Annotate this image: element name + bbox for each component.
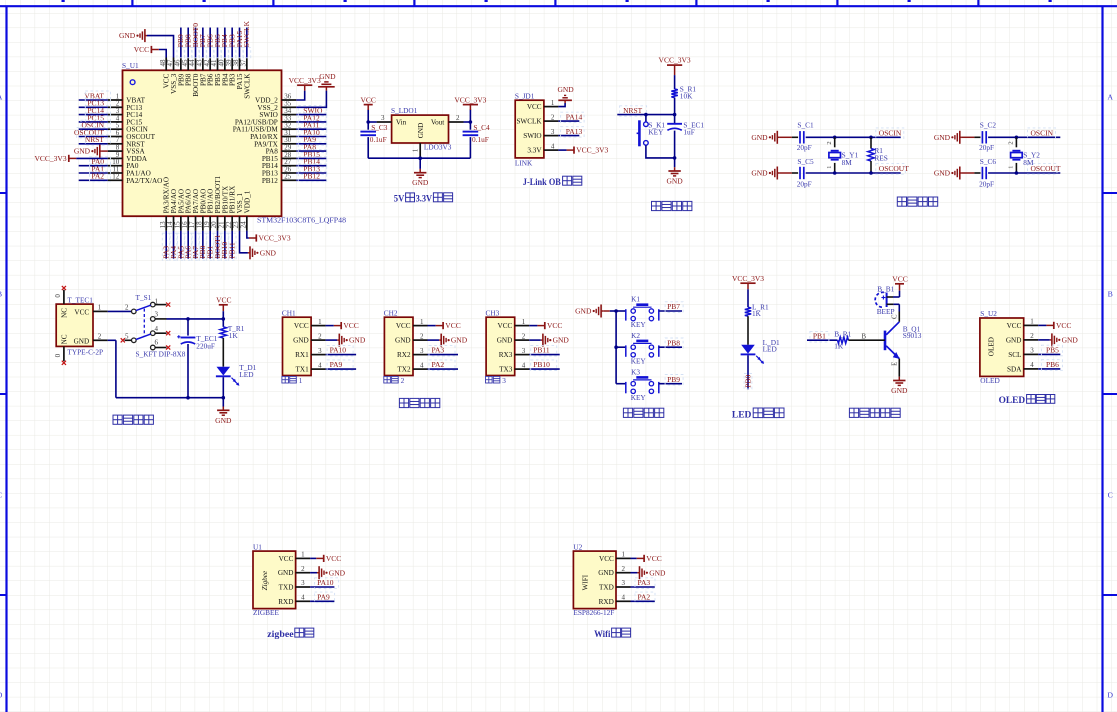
wire [1038,353,1060,355]
TEC1 shield pin top [63,290,65,304]
wire [834,163,836,173]
power flag VCC [334,321,359,330]
wire [674,158,676,167]
junction [644,113,648,117]
wire VSS_2 to GND [296,91,326,108]
svg-text:E: E [892,362,899,366]
svg-text:0: 0 [54,294,62,298]
net label OSCOUT [1028,164,1061,175]
wire NRST [617,114,674,116]
svg-text:VCC: VCC [360,95,375,104]
net label VBAT [84,91,110,101]
caption OLED display (CJK) [999,395,1055,406]
net label BOOT0 [191,23,200,58]
caption LED circuit (CJK) [732,408,784,419]
svg-text:GND: GND [74,337,90,345]
svg-text:SWCLK: SWCLK [242,20,251,47]
caption J-Link OB interface [523,176,582,187]
power flag VCC_3V3 reset [659,56,691,76]
net label PB8 [184,34,193,58]
wire [646,145,675,158]
ground at C1 [751,131,779,144]
svg-text:S_C2: S_C2 [980,121,997,130]
wire [326,368,357,370]
junction [673,113,677,117]
power flag VCC_3V3 at VDD_1 pin 24 [249,234,291,243]
svg-text:1: 1 [551,99,555,107]
CH3 pin stubs and numbers [515,318,530,370]
wire [367,137,369,158]
wire VSS_1 to GND [240,231,248,253]
svg-text:3: 3 [1030,347,1034,355]
svg-text:GND: GND [598,569,614,577]
svg-text:K2: K2 [631,331,640,340]
power flag VCC_3V3 at VDDA pin 9 [35,154,77,163]
svg-text:OSCIN: OSCIN [1031,128,1054,137]
net label PA1 [90,164,111,174]
wire OSCIN row 2 [988,136,1060,138]
MCU bottom pin stubs and numbers [159,216,248,231]
wire [631,586,655,588]
power flag VCC [436,321,461,330]
svg-text:C: C [0,491,2,500]
svg-text:TX1: TX1 [296,366,310,374]
svg-text:2: 2 [551,113,555,121]
capacitor T_EC1 220uF [177,335,195,344]
resistor B_R1 1K [838,337,849,343]
svg-text:3: 3 [522,347,526,355]
ground [541,334,570,347]
svg-text:2: 2 [401,376,405,385]
caption power circuit (CJK) [113,415,122,424]
svg-text:VCC: VCC [1056,321,1071,330]
svg-text:VCC: VCC [294,322,309,330]
svg-text:LINK: LINK [515,158,533,167]
svg-text:VCC_3V3: VCC_3V3 [259,234,291,243]
junction [1015,136,1019,140]
power flag VCC_3V3 at LDO output [454,95,486,110]
svg-text:GND: GND [319,72,336,81]
svg-text:CH2: CH2 [384,308,398,317]
net label PB14 [298,157,327,167]
JD1 pin stubs and numbers [544,99,559,151]
connector CH1 body [283,317,312,375]
svg-text:3: 3 [381,114,385,122]
svg-text:VCC: VCC [527,103,542,111]
svg-text:KEY: KEY [631,393,647,402]
svg-text:2: 2 [522,332,526,340]
caption key circuit (CJK) [623,408,632,417]
svg-text:PA10: PA10 [330,346,347,355]
svg-text:PA2: PA2 [638,592,651,601]
capacitor S_C6 20pF [982,167,986,179]
MCU bottom wires [166,231,232,259]
caption serial port 1 (CJK) [282,376,303,385]
svg-text:LED: LED [239,370,253,379]
junction [186,396,190,400]
sheet border left line [5,6,7,712]
svg-text:3: 3 [155,311,159,319]
wire bottom bus power [116,397,223,399]
wire [1038,368,1060,370]
svg-text:RES: RES [874,153,887,162]
wire switch pin3 to VCC rail [167,318,224,320]
net label OSCOUT [876,164,909,175]
svg-text:ESP8266-12F: ESP8266-12F [573,608,614,617]
wire OSCOUT row [806,172,901,174]
net label PA4 [169,233,178,260]
net label PA9 [298,135,327,145]
net label PA2 [90,171,111,181]
LED T_D1 [216,367,240,386]
junction [222,396,226,400]
svg-text:C: C [1108,491,1113,500]
wire [899,291,901,297]
svg-text:1: 1 [1008,166,1015,169]
svg-text:PA9: PA9 [330,360,343,369]
svg-text:RX2: RX2 [397,351,411,359]
svg-text:RX1: RX1 [295,351,309,359]
svg-text:B: B [862,334,867,341]
buzzer B_B1 [875,292,886,307]
svg-text:PB12: PB12 [303,172,320,181]
net label PA8 [298,142,327,152]
svg-text:3: 3 [502,376,506,385]
wire [102,150,108,152]
svg-text:GND: GND [329,568,346,577]
svg-text:PB10: PB10 [533,360,550,369]
wire VSS_3 pin 47 [147,36,174,58]
svg-text:1: 1 [299,376,303,385]
svg-text:3.3V: 3.3V [527,147,542,155]
net label PB15 [298,149,327,159]
net label PB10 [531,360,557,371]
switch T_S1 DPDT [132,302,156,350]
svg-text:TX2: TX2 [397,366,411,374]
svg-text:S_U2: S_U2 [980,309,997,318]
svg-text:Zigbee: Zigbee [261,570,269,590]
svg-text:KEY: KEY [648,128,664,137]
wire [367,122,369,130]
svg-text:4: 4 [1030,361,1034,369]
MCU right pin stubs and numbers [282,92,297,180]
wire VDD_2 to VCC_3V3 [296,91,304,100]
power flag VCC at OLED [1046,321,1071,330]
svg-text:LED: LED [763,344,777,353]
svg-text:SWCLK: SWCLK [243,73,251,99]
CH3 pin names [497,322,513,374]
svg-text:GND: GND [215,416,232,425]
svg-text:TXD: TXD [279,584,294,592]
svg-text:3: 3 [318,347,322,355]
svg-text:2: 2 [622,565,626,573]
U2 pin stubs and numbers [1024,318,1038,370]
svg-text:NC: NC [60,308,68,318]
push button S_K1 [637,120,649,146]
svg-text:VCC: VCC [892,274,907,283]
module U1 body [253,551,296,609]
CH1 pin stubs and numbers [311,318,326,370]
net label OSCIN [876,128,904,139]
svg-text:3.3V: 3.3V [416,194,433,204]
svg-text:GND: GND [74,147,91,156]
svg-text:PA13: PA13 [566,127,583,136]
wire [187,319,189,336]
net label PB6 [1041,360,1062,371]
ground buzzer [891,377,908,395]
wire [974,172,980,174]
net label NRST [620,106,647,116]
svg-text:4: 4 [301,594,305,602]
net label PA10 [298,128,327,138]
module U2 body [573,551,616,609]
svg-text:GND: GND [751,169,768,178]
capacitor S_C3 [360,132,376,136]
net label PB1 [810,331,829,342]
svg-text:4: 4 [551,142,555,150]
svg-text:VCC: VCC [445,321,460,330]
svg-text:PB9: PB9 [667,375,680,384]
TEC1 shield pin bottom [63,346,65,361]
svg-text:VCC: VCC [74,308,89,316]
svg-text:GND: GND [1006,336,1022,344]
svg-text:S_KFT DIP-8X8: S_KFT DIP-8X8 [136,350,186,359]
svg-text:VDD_1: VDD_1 [243,190,251,213]
net label PB0 [198,233,207,260]
svg-text:RXD: RXD [599,598,614,606]
wire [674,75,676,89]
ground at VSS_1 pin 23 [248,246,277,259]
net label PA12 [298,113,327,123]
svg-text:GND: GND [666,177,683,186]
wire [529,339,541,341]
svg-text:PA2/TX/AO: PA2/TX/AO [126,177,162,185]
wire [631,600,655,602]
svg-text:VCC_3V3: VCC_3V3 [732,274,764,283]
TEC1 pin names [60,308,89,346]
junction [869,136,873,140]
wire VCC_3V3 down [469,109,471,122]
net label PA2 [635,592,655,603]
svg-text:S_C3: S_C3 [371,123,388,132]
junction [673,156,677,160]
svg-text:2: 2 [318,332,322,340]
svg-text:B: B [1108,290,1113,299]
wire [310,572,317,574]
TEC1 pin 2 stub [93,339,108,341]
svg-text:WIFI: WIFI [582,574,590,590]
capacitor S_C2 20pF [982,131,986,143]
net label PB12 [298,171,327,181]
svg-text:TX3: TX3 [499,366,513,374]
svg-text:Vout: Vout [431,118,444,126]
wire [108,339,116,341]
wire [645,115,647,122]
svg-text:4: 4 [420,361,424,369]
svg-text:3: 3 [622,579,626,587]
wire [792,172,798,174]
svg-text:PB7: PB7 [667,302,680,311]
capacitor S_C4 [463,132,479,136]
net label BOOT1 [213,233,222,260]
svg-text:2: 2 [1030,332,1034,340]
svg-text:8M: 8M [1023,158,1034,167]
svg-text:VCC_3V3: VCC_3V3 [289,76,321,85]
power flag VCC power circuit [216,295,231,311]
svg-text:GND: GND [891,386,908,395]
wire [115,340,117,397]
ground at VSS_3 pin 47 [119,29,147,42]
LDO pin 1 stub [419,143,421,158]
MCU left wires [79,100,108,180]
ground at C6 [934,167,962,180]
svg-text:GND: GND [553,336,570,345]
ground at VSSA pin 8 [74,145,102,158]
wire [870,137,872,148]
svg-text:1: 1 [522,318,526,326]
net label PA3 [635,578,655,589]
junction [614,345,618,349]
CH2 pin stubs and numbers [413,318,428,370]
no-connect X [121,338,125,342]
wire [616,310,626,312]
net label SWCLK [242,20,251,57]
wire [326,325,334,327]
ground at JD1 pin 1 [557,85,574,103]
svg-text:24: 24 [239,221,247,229]
svg-text:C: C [892,314,899,319]
wire [108,310,132,312]
wire [428,339,440,341]
svg-text:PB11: PB11 [228,242,237,259]
switch pin numbers [125,297,159,346]
net label PB5 [213,34,222,58]
svg-text:1K: 1K [752,309,762,318]
U2 pin names [1006,322,1022,374]
wire [529,368,560,370]
net label PB6 [206,34,215,58]
net label PA11 [298,120,327,130]
svg-text:CH3: CH3 [486,308,500,317]
svg-text:1: 1 [420,318,424,326]
power flag VCC [316,554,341,563]
connector CH3 body [486,317,515,375]
wire VCC down [367,109,369,122]
push button K2 [626,341,659,357]
wire [848,339,885,341]
wire [616,383,626,385]
ground at C2 [934,131,962,144]
wire [529,354,560,356]
svg-text:2: 2 [301,565,305,573]
junction [833,136,837,140]
svg-text:2: 2 [456,114,460,122]
U2 pin names [598,555,614,606]
svg-text:SWCLK: SWCLK [516,118,542,126]
net label PA5 [176,233,185,260]
power flag VCC at LDO input [360,95,375,110]
svg-text:PA14: PA14 [566,112,583,121]
sheet column ticks [62,0,1052,6]
svg-text:PB6: PB6 [1046,360,1059,369]
wire [222,398,224,407]
svg-text:VCC: VCC [134,45,149,54]
wire [222,311,224,319]
svg-text:RX3: RX3 [499,351,513,359]
svg-text:K3: K3 [631,367,640,376]
wire OSCIN row [806,136,901,138]
CH1 pin names [293,322,309,374]
wire [1038,339,1050,341]
net label OSCOUT [74,128,111,138]
MCU top pin stubs and numbers [159,58,248,71]
caption serial port 2 (CJK) [384,376,405,385]
net label PB7 [198,34,207,58]
svg-text:GND: GND [349,336,366,345]
wire [616,346,626,348]
caption buzzer circuit (CJK) [849,408,858,417]
net label PB1 [206,233,215,260]
power flag VCC at pin 48 [134,45,159,54]
net label PB11 [228,233,237,260]
no-connect X [62,286,66,290]
wire [834,137,836,147]
svg-text:VCC: VCC [547,321,562,330]
net label PB9 [665,375,683,386]
svg-text:2: 2 [1008,141,1015,144]
wire [310,600,334,602]
net label PA13 [561,127,585,137]
junction [469,120,473,124]
svg-text:4: 4 [622,594,626,602]
capacitor S_EC1 1uF [667,124,682,131]
wire [222,319,224,327]
svg-text:T_S1: T_S1 [136,293,152,302]
svg-text:SCL: SCL [1008,351,1021,359]
svg-text:VCC_3V3: VCC_3V3 [454,95,486,104]
junction [186,317,190,321]
svg-text:GND: GND [934,133,951,142]
net label NRST [85,135,111,145]
display S_U2 body [980,318,1024,376]
LDO pin 3 stub [377,121,392,123]
svg-text:GND: GND [575,307,592,316]
wire [558,135,579,137]
svg-text:1K: 1K [229,331,239,340]
power flag VCC_3V3 at JD1 pin 4 [567,146,609,155]
svg-text:PB11: PB11 [533,346,550,355]
junction [833,171,837,175]
svg-text:0.1uF: 0.1uF [370,135,387,144]
svg-text:GND: GND [451,336,468,345]
svg-text:220uF: 220uF [196,341,215,350]
svg-text:37: 37 [239,59,247,67]
svg-text:B_R1: B_R1 [834,330,851,339]
svg-text:VCC: VCC [646,554,661,563]
net label PC13 [85,98,110,108]
wire [464,121,471,123]
svg-text:RXD: RXD [278,598,293,606]
svg-text:Wifi: Wifi [594,629,611,639]
wire VDD_1 to VCC_3V3 [247,231,249,238]
svg-text:6: 6 [155,339,159,347]
svg-text:GND: GND [751,133,768,142]
svg-text:GND: GND [278,569,294,577]
svg-text:SDA: SDA [1007,365,1022,373]
svg-text:S_U1: S_U1 [122,61,139,70]
junction [869,171,873,175]
no-connect X [166,345,170,349]
